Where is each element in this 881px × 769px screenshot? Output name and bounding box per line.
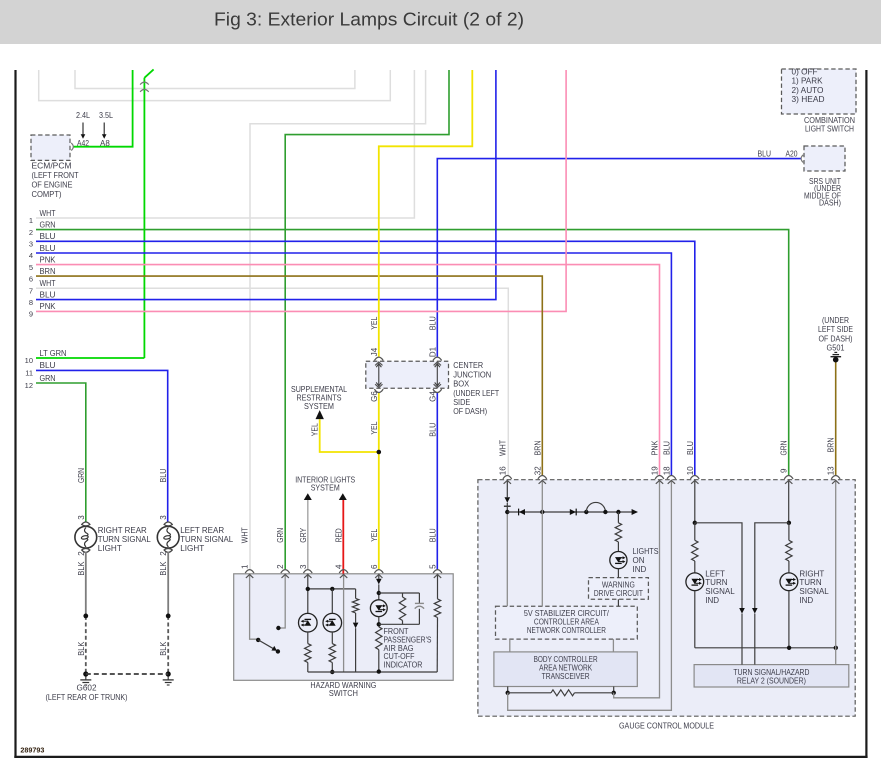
svg-text:INDICATOR: INDICATOR bbox=[384, 660, 423, 669]
svg-text:BLU: BLU bbox=[428, 422, 437, 436]
svg-text:19: 19 bbox=[651, 466, 660, 475]
svg-text:4: 4 bbox=[29, 251, 33, 260]
svg-text:DRIVE CIRCUIT: DRIVE CIRCUIT bbox=[594, 589, 643, 598]
svg-text:BLU: BLU bbox=[40, 244, 56, 253]
svg-text:BLU: BLU bbox=[428, 316, 437, 330]
svg-text:LEFT: LEFT bbox=[705, 569, 725, 578]
svg-text:NETWORK CONTROLLER: NETWORK CONTROLLER bbox=[527, 625, 606, 635]
svg-text:TURN: TURN bbox=[705, 578, 727, 587]
svg-text:GRN: GRN bbox=[40, 374, 56, 383]
svg-text:289793: 289793 bbox=[20, 747, 44, 754]
svg-text:2: 2 bbox=[276, 564, 285, 569]
svg-text:YEL: YEL bbox=[370, 421, 379, 434]
svg-text:RIGHT: RIGHT bbox=[799, 569, 824, 578]
svg-text:IND: IND bbox=[705, 596, 719, 605]
svg-text:3: 3 bbox=[29, 240, 33, 249]
svg-text:DASH): DASH) bbox=[819, 199, 841, 208]
svg-text:G602: G602 bbox=[77, 682, 97, 692]
svg-text:BLU: BLU bbox=[758, 150, 772, 159]
svg-text:16: 16 bbox=[498, 466, 507, 475]
svg-text:18: 18 bbox=[662, 466, 671, 475]
svg-text:BLU: BLU bbox=[429, 528, 438, 542]
svg-text:LIGHTS: LIGHTS bbox=[633, 547, 659, 556]
svg-text:3: 3 bbox=[159, 515, 168, 520]
svg-text:1: 1 bbox=[29, 216, 33, 225]
svg-text:13: 13 bbox=[827, 466, 836, 475]
svg-text:YEL: YEL bbox=[370, 316, 379, 329]
svg-text:OF DASH): OF DASH) bbox=[453, 406, 487, 416]
svg-text:SIGNAL: SIGNAL bbox=[705, 587, 735, 596]
svg-text:WHT: WHT bbox=[40, 209, 56, 218]
svg-text:BLU: BLU bbox=[662, 441, 671, 455]
svg-text:WHT: WHT bbox=[40, 279, 56, 288]
svg-text:3.5L: 3.5L bbox=[99, 111, 113, 120]
svg-text:LIGHT: LIGHT bbox=[98, 543, 122, 553]
svg-text:LT GRN: LT GRN bbox=[40, 349, 67, 358]
svg-text:IND: IND bbox=[799, 596, 813, 605]
svg-text:PNK: PNK bbox=[40, 302, 57, 311]
svg-text:YEL: YEL bbox=[370, 528, 379, 541]
svg-text:WHT: WHT bbox=[241, 527, 250, 543]
svg-text:Fig 3: Exterior Lamps Circuit: Fig 3: Exterior Lamps Circuit (2 of 2) bbox=[214, 10, 524, 30]
svg-text:BLU: BLU bbox=[159, 468, 168, 482]
svg-text:2) AUTO: 2) AUTO bbox=[792, 86, 824, 95]
svg-text:D1: D1 bbox=[428, 346, 437, 357]
svg-text:PNK: PNK bbox=[651, 440, 660, 456]
svg-text:SYSTEM: SYSTEM bbox=[304, 401, 334, 411]
svg-text:3: 3 bbox=[299, 564, 308, 569]
svg-text:3: 3 bbox=[77, 515, 86, 520]
svg-text:BLU: BLU bbox=[40, 361, 56, 370]
svg-text:TRANSCEIVER: TRANSCEIVER bbox=[542, 671, 590, 681]
svg-text:0) OFF: 0) OFF bbox=[792, 68, 818, 77]
svg-text:2.4L: 2.4L bbox=[76, 111, 90, 120]
svg-text:9: 9 bbox=[780, 468, 789, 473]
svg-text:A42: A42 bbox=[77, 139, 89, 148]
svg-text:GAUGE CONTROL MODULE: GAUGE CONTROL MODULE bbox=[619, 720, 714, 730]
svg-text:10: 10 bbox=[686, 466, 695, 475]
svg-text:11: 11 bbox=[25, 369, 33, 378]
svg-text:8: 8 bbox=[29, 298, 33, 307]
svg-text:SYSTEM: SYSTEM bbox=[311, 482, 340, 492]
svg-text:6: 6 bbox=[370, 564, 379, 569]
svg-text:BLK: BLK bbox=[77, 561, 86, 576]
svg-text:5: 5 bbox=[29, 263, 33, 272]
svg-text:10: 10 bbox=[25, 356, 33, 365]
svg-text:RED: RED bbox=[335, 528, 344, 542]
svg-text:BLK: BLK bbox=[159, 641, 168, 656]
svg-text:2: 2 bbox=[29, 228, 33, 237]
svg-text:LIGHT SWITCH: LIGHT SWITCH bbox=[805, 124, 854, 134]
svg-text:TURN: TURN bbox=[799, 578, 821, 587]
svg-text:32: 32 bbox=[533, 466, 542, 475]
svg-text:PNK: PNK bbox=[40, 255, 57, 264]
svg-text:A8: A8 bbox=[100, 139, 110, 148]
svg-text:IND: IND bbox=[633, 565, 647, 574]
svg-text:5: 5 bbox=[429, 564, 438, 569]
svg-text:BLK: BLK bbox=[77, 641, 86, 656]
svg-text:BRN: BRN bbox=[40, 267, 56, 276]
svg-text:1) PARK: 1) PARK bbox=[792, 77, 824, 86]
svg-text:GRN: GRN bbox=[77, 468, 86, 483]
svg-text:GRN: GRN bbox=[276, 528, 285, 543]
svg-text:WHT: WHT bbox=[498, 440, 507, 456]
svg-text:1: 1 bbox=[241, 564, 250, 569]
svg-text:9: 9 bbox=[29, 310, 33, 319]
svg-text:GRY: GRY bbox=[299, 527, 308, 543]
svg-text:RELAY 2 (SOUNDER): RELAY 2 (SOUNDER) bbox=[737, 675, 806, 685]
svg-text:SIGNAL: SIGNAL bbox=[799, 587, 829, 596]
svg-text:BLK: BLK bbox=[159, 561, 168, 576]
svg-text:BLU: BLU bbox=[686, 441, 695, 455]
svg-text:YEL: YEL bbox=[311, 423, 320, 436]
svg-text:LIGHT: LIGHT bbox=[180, 543, 204, 553]
svg-text:A20: A20 bbox=[786, 150, 798, 159]
svg-text:BRN: BRN bbox=[827, 437, 836, 452]
svg-text:6: 6 bbox=[29, 274, 33, 283]
svg-text:BLU: BLU bbox=[40, 290, 56, 299]
svg-text:COMPT): COMPT) bbox=[32, 189, 62, 199]
svg-text:7: 7 bbox=[29, 287, 33, 296]
svg-text:GRN: GRN bbox=[40, 220, 56, 229]
svg-text:SWITCH: SWITCH bbox=[329, 688, 358, 698]
svg-text:BRN: BRN bbox=[533, 440, 542, 455]
svg-text:BLU: BLU bbox=[40, 232, 56, 241]
svg-text:J4: J4 bbox=[370, 347, 379, 356]
svg-text:2: 2 bbox=[159, 551, 168, 556]
svg-text:G4: G4 bbox=[428, 391, 437, 402]
svg-text:(LEFT REAR OF TRUNK): (LEFT REAR OF TRUNK) bbox=[46, 692, 128, 702]
svg-text:GRN: GRN bbox=[780, 440, 789, 455]
svg-text:G6: G6 bbox=[370, 391, 379, 402]
svg-text:3) HEAD: 3) HEAD bbox=[792, 95, 825, 104]
svg-text:G501: G501 bbox=[827, 343, 845, 353]
svg-text:2: 2 bbox=[77, 551, 86, 556]
svg-text:12: 12 bbox=[25, 381, 33, 390]
svg-text:ON: ON bbox=[633, 556, 645, 565]
svg-text:4: 4 bbox=[335, 564, 344, 569]
